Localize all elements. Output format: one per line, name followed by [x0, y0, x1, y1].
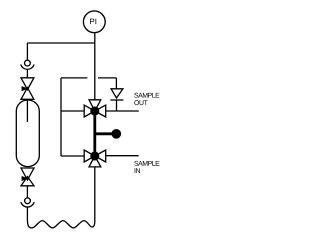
sample cylinder [16, 100, 39, 167]
wire CV1 outlet [116, 100, 118, 111]
wire thick interconnect [93, 111, 96, 156]
three-way valve A [84, 100, 106, 117]
label SAMPLE OUT [134, 93, 159, 105]
plug dot [111, 129, 121, 139]
wire main riser [94, 43, 96, 100]
wire sample out [106, 110, 139, 112]
wire PI stem [94, 33, 96, 43]
dip tube [26, 99, 28, 122]
wire plug stub [95, 132, 112, 135]
wire bracket to valve A [61, 110, 84, 112]
wire bracket to valve B [61, 155, 84, 157]
quick-connect QC2 [21, 198, 34, 207]
wire crossover left [61, 77, 87, 79]
wire V2 to QC2 [26, 186, 28, 198]
wire check valve drop [115, 78, 117, 89]
needle valve V1 [21, 78, 34, 100]
needle valve V2 [21, 168, 34, 186]
flexible coil [27, 219, 94, 228]
gauge PI [83, 11, 105, 33]
wire left bracket vertical [60, 78, 62, 156]
wire QC2 down [26, 207, 28, 219]
check valve CV1 [110, 89, 123, 100]
label SAMPLE IN [134, 161, 159, 173]
quick-connect QC1 [21, 60, 34, 69]
wire left drop [26, 43, 28, 60]
wire QC1 to valve [26, 69, 28, 78]
three-way valve B [84, 150, 106, 167]
wire sample in [106, 155, 139, 157]
wire coil riser [94, 167, 96, 222]
wire top header [27, 42, 94, 44]
wire crossover right [98, 77, 117, 79]
